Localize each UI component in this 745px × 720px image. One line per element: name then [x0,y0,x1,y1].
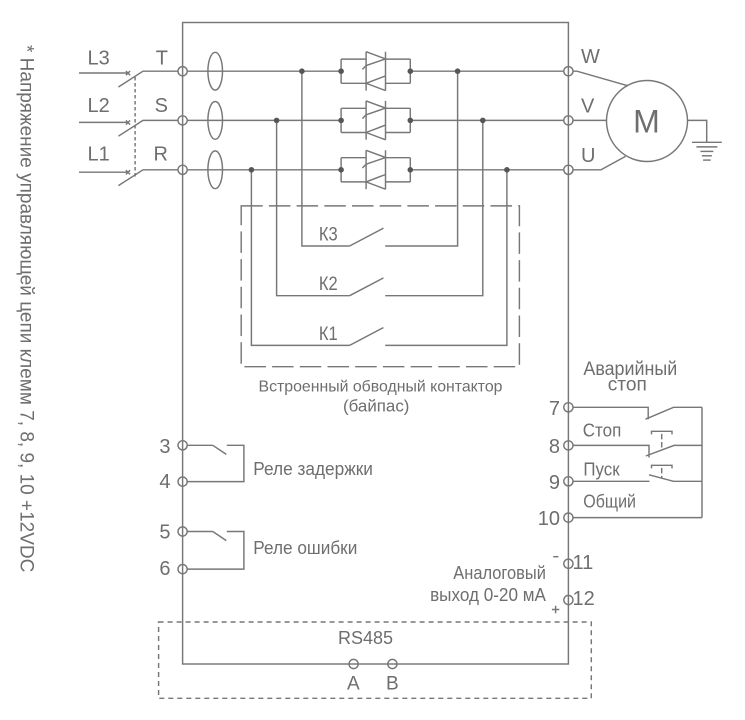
contact cross L2 [126,120,130,124]
wire K2 right rise [385,120,483,295]
wire row T right [410,70,564,72]
soft starter enclosure box [183,23,569,665]
wire V to motor [573,119,607,121]
switch S7 emergency stop blade [646,407,703,419]
wire row R left [187,169,341,171]
terminal 6 [178,565,187,574]
wire terminal 10 common [573,517,702,519]
wire row S left [187,119,341,121]
svg-text:Общий: Общий [583,490,636,511]
terminal 4 [178,477,187,486]
svg-text:Пуск: Пуск [583,459,620,480]
svg-text:T: T [156,47,168,69]
svg-text:3: 3 [159,436,170,458]
label plus [552,606,559,613]
svg-text:V: V [581,95,595,117]
junction dots row R [249,167,510,173]
contact cross L1 [126,170,130,174]
terminal 10 [564,513,573,522]
wire button bus [701,407,703,517]
terminal 12 [564,595,573,604]
relay contact KR1 (delay relay) [187,445,244,481]
contactor K2 blade [350,278,384,296]
svg-text:стоп: стоп [608,375,647,396]
terminal 7 [564,403,573,412]
terminal 3 [178,441,187,450]
terminal S [178,116,187,125]
svg-text:К3: К3 [319,225,338,246]
svg-text:(байпас): (байпас) [343,396,409,415]
thyristor pair VS2 (phase S-V) [341,101,410,140]
svg-text:9: 9 [549,472,560,494]
thyristor pair VS1 (phase T-W) [341,52,410,91]
current transformer CT2 [208,102,223,140]
wire L1 input [79,171,128,173]
wire U to motor [573,156,626,169]
wire K3 left drop [302,71,350,246]
svg-text:W: W [581,46,600,68]
contactor K3 blade [350,228,384,246]
wire row T left [187,70,341,72]
terminal A [349,659,358,668]
wire L2 input [79,121,128,123]
svg-text:12: 12 [573,588,595,610]
contactor K1 blade [350,328,384,346]
terminal 8 [564,441,573,450]
terminal W [564,67,573,76]
svg-text:Встроенный обводный контактор: Встроенный обводный контактор [259,378,503,395]
wire motor to earth [688,120,707,142]
switch Q L3 blade [118,71,178,87]
wire W to motor [573,71,628,86]
terminal V [564,116,573,125]
terminal T [178,67,187,76]
pushbutton actuator S9 [652,465,673,478]
svg-text:L3: L3 [88,47,110,69]
switch S8 stop blade [646,445,702,456]
svg-text:Реле ошибки: Реле ошибки [253,538,357,558]
svg-text:5: 5 [159,521,170,543]
terminal B [388,659,397,668]
svg-text:* Напряжение управляющей цепи: * Напряжение управляющей цепи клемм 7, 8… [16,45,37,572]
thyristor pair VS3 (phase R-U) [341,150,410,189]
current transformer CT3 [208,151,223,189]
wire L3 input [79,72,128,74]
ground (earth) [692,142,722,160]
relay contact KR2 (fault relay) [187,532,244,570]
switch S9 start blade [649,475,702,482]
terminal R [178,165,187,174]
contact cross L3 [126,71,130,75]
wire row R right [410,169,564,171]
svg-text:L1: L1 [88,144,110,166]
svg-text:M: M [633,104,660,140]
wire K1 right rise [385,170,507,346]
junction dots row S [274,118,486,124]
wire row S right [410,119,564,121]
wire terminal 9 [573,480,650,482]
svg-text:10: 10 [538,508,560,530]
svg-text:Реле задержки: Реле задержки [253,459,373,479]
current transformer CT1 [208,52,223,90]
svg-text:6: 6 [159,558,170,580]
wire terminal 8 [573,445,649,457]
svg-text:К1: К1 [319,324,338,345]
terminal 9 [564,477,573,486]
mechanical link (dashed) [134,77,136,177]
pushbutton actuator S8 [652,431,673,450]
motor M1 [607,81,688,162]
wire K2 left drop [277,120,350,295]
svg-text:выход 0-20 мА: выход 0-20 мА [430,585,546,605]
wire K3 right rise [385,71,457,246]
svg-text:8: 8 [549,436,560,458]
label minus [553,556,558,558]
svg-text:B: B [386,674,399,695]
svg-text:7: 7 [549,398,560,420]
svg-text:U: U [581,145,595,167]
wire K1 left drop [251,170,349,346]
svg-text:11: 11 [573,552,594,574]
svg-text:R: R [154,144,168,166]
svg-text:Стоп: Стоп [583,419,622,440]
svg-text:4: 4 [159,471,170,493]
terminal 11 [564,559,573,568]
svg-text:К2: К2 [319,274,338,295]
terminal 5 [178,527,187,536]
switch Q L2 blade [118,120,178,136]
switch Q L1 blade [118,170,178,186]
svg-text:RS485: RS485 [338,628,393,648]
terminal U [564,165,573,174]
svg-text:L2: L2 [88,95,110,117]
svg-text:Аналоговый: Аналоговый [453,563,546,583]
RS485 dashed box [159,622,592,698]
svg-text:A: A [347,674,360,695]
wire terminal 7 [573,407,648,419]
junction dots row T [299,68,460,74]
bypass contactor dashed box [241,206,519,367]
svg-text:S: S [155,95,168,117]
